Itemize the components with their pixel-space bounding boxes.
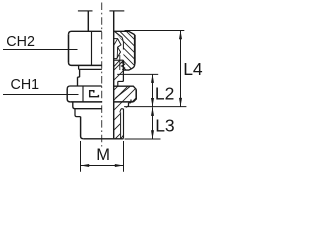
tube break line left xyxy=(78,10,93,12)
body relief step right section xyxy=(118,81,124,86)
stud start step right section xyxy=(121,108,124,110)
nut hex facet line xyxy=(91,32,93,66)
svg-text:L2: L2 xyxy=(155,84,174,104)
tube break line right xyxy=(109,10,124,12)
thread runout neck left xyxy=(75,109,81,117)
stud bottom face xyxy=(83,138,123,140)
body collar left outside xyxy=(78,77,80,86)
nut section outline (right half) xyxy=(114,31,135,70)
body seat cone line xyxy=(114,60,120,67)
dimension M xyxy=(81,141,124,172)
hex chamfer cone line in section xyxy=(116,87,131,99)
stamp glyph on hex facet xyxy=(90,91,99,97)
svg-text:CH1: CH1 xyxy=(11,77,40,93)
centerline xyxy=(101,3,103,147)
nut outside view (left half) xyxy=(69,31,102,65)
hex CH1 top faces xyxy=(67,86,102,89)
stud thread lines right section xyxy=(120,112,122,138)
extension line L2 top xyxy=(117,73,158,75)
sealing collar under hex xyxy=(73,102,102,109)
tube wall left xyxy=(87,11,89,31)
svg-text:L3: L3 xyxy=(155,116,174,136)
tube wall right / body bore wall xyxy=(113,11,115,138)
stud start chamfer right xyxy=(120,109,121,113)
dimension L3 xyxy=(151,107,175,139)
svg-text:CH2: CH2 xyxy=(6,34,35,50)
body seat face in section xyxy=(114,59,124,61)
thread zigzag between nut and body xyxy=(121,61,124,70)
svg-text:M: M xyxy=(96,146,110,164)
hex CH1 left edge xyxy=(67,89,70,102)
body neck left outside xyxy=(79,69,81,77)
dimension L4 xyxy=(179,31,203,107)
hex bottom faces xyxy=(70,101,102,103)
nut hatch (section, top-left to bottom-right) xyxy=(61,24,148,109)
ferrule (cutting ring) in section xyxy=(114,39,121,59)
CH2 leader xyxy=(3,49,78,51)
stud bottom chamfer right xyxy=(121,135,124,138)
hex CH1 facet line xyxy=(82,86,84,101)
CH1 leader xyxy=(3,94,79,96)
body thread OD line in section xyxy=(122,60,124,81)
hex CH1 right edge section xyxy=(133,89,136,102)
stud outside view left xyxy=(81,117,84,139)
extension line shoulder (L4/L2 bottom, L3 top) xyxy=(124,106,186,108)
nut inner chamfer xyxy=(114,31,122,37)
body cone edge xyxy=(119,55,121,70)
body hatch (section, bottom-left to top-right) xyxy=(104,24,150,180)
svg-text:L4: L4 xyxy=(183,59,203,79)
nut skirt left outside xyxy=(79,65,102,69)
extension line nut top (L4) xyxy=(125,30,185,32)
extension line stud bottom (L3) xyxy=(125,138,161,140)
dimension L2 xyxy=(151,74,174,107)
